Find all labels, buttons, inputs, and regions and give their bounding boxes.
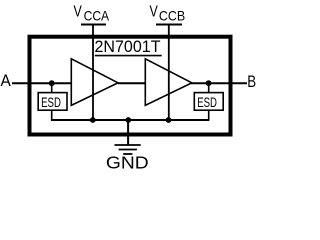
svg-text:ESD: ESD (197, 95, 217, 110)
svg-text:CCB: CCB (159, 8, 185, 24)
svg-text:CCA: CCA (84, 8, 110, 24)
svg-text:ESD: ESD (41, 95, 61, 110)
svg-text:V: V (150, 4, 159, 21)
svg-text:GND: GND (106, 153, 149, 173)
svg-text:B: B (247, 72, 256, 91)
svg-text:2N7001T: 2N7001T (95, 37, 161, 56)
svg-text:A: A (1, 71, 12, 90)
svg-text:V: V (74, 4, 83, 21)
